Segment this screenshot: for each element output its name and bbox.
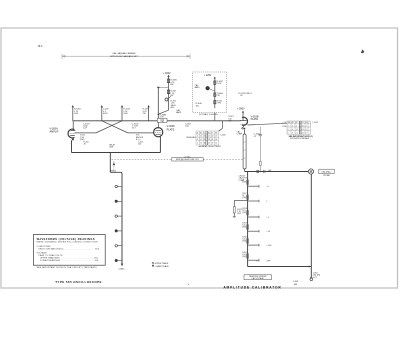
svg-text:1.0: 1.0 [302, 125, 304, 127]
svg-text:(5W): (5W) [242, 197, 246, 199]
svg-text:LOWER READINGS . . . . . . . .: LOWER READINGS . . . . . . . . . . . . .… [40, 259, 99, 262]
svg-text:(5W): (5W) [242, 181, 246, 183]
svg-text:60: 60 [212, 136, 214, 138]
svg-text:15: 15 [208, 136, 210, 138]
svg-text:AMPL: AMPL [195, 86, 200, 89]
svg-text:CAL VOLTAGE: CAL VOLTAGE [252, 277, 265, 280]
svg-text:35: 35 [215, 143, 217, 145]
svg-text:(5W): (5W) [242, 212, 246, 214]
svg-text:2.0: 2.0 [296, 132, 298, 134]
svg-text:+ 300V: + 300V [163, 72, 171, 75]
svg-text:.2: .2 [292, 125, 293, 127]
svg-text:WAVEFORMS (VOLTAGE) READINGS: WAVEFORMS (VOLTAGE) READINGS [37, 237, 95, 241]
svg-text:14: 14 [200, 143, 202, 145]
svg-text:10W: 10W [123, 113, 127, 115]
svg-text:2: 2 [288, 129, 289, 131]
svg-text:PLATE: PLATE [251, 118, 259, 121]
svg-text:10W: 10W [237, 213, 241, 215]
svg-text:100: 100 [138, 143, 141, 145]
svg-text:UPPER TRACE: UPPER TRACE [155, 262, 169, 265]
svg-text:8: 8 [306, 132, 307, 134]
svg-text:PRI: PRI [217, 95, 221, 97]
svg-text:WITH R-302 GAIN ADJ SET: WITH R-302 GAIN ADJ SET [110, 55, 138, 58]
svg-text:LINE: LINE [109, 147, 114, 149]
svg-text:65: 65 [212, 139, 214, 141]
svg-text:SEE IMPORTANT NOTE IN THE CIRC: SEE IMPORTANT NOTE IN THE CIRCUIT (THIS … [37, 266, 97, 269]
svg-text:D2: D2 [208, 132, 210, 134]
svg-text:+.001: +.001 [266, 245, 272, 247]
svg-text:18-3: 18-3 [38, 45, 43, 48]
svg-text:2: 2 [306, 125, 307, 127]
svg-text:25: 25 [204, 136, 206, 138]
svg-text:+ 225V: + 225V [204, 75, 212, 77]
svg-text:AMPL: AMPL [176, 111, 182, 114]
svg-text:.4: .4 [292, 129, 293, 131]
svg-text:1: 1 [288, 125, 289, 127]
svg-text:FOR SWITCH DETAILS: FOR SWITCH DETAILS [290, 137, 310, 140]
svg-text:4: 4 [306, 129, 307, 131]
svg-text:LEVEL ADJ: LEVEL ADJ [186, 136, 196, 139]
svg-text:1.0: 1.0 [296, 129, 298, 131]
svg-text:10: 10 [200, 136, 202, 138]
svg-text:12: 12 [200, 139, 202, 141]
svg-text:91.5K: 91.5K [217, 83, 223, 85]
svg-text:.2: .2 [197, 139, 198, 141]
svg-text:100: 100 [196, 105, 199, 107]
svg-text:WERE OBTAINED UNDER FOLLOWING: WERE OBTAINED UNDER FOLLOWING CONDITIONS… [37, 241, 99, 244]
svg-text:COM: COM [282, 126, 287, 128]
svg-text:1W: 1W [143, 113, 146, 115]
svg-text:(5W): (5W) [242, 256, 246, 258]
svg-text:CALIBRATION SETTINGS: CALIBRATION SETTINGS [198, 145, 221, 148]
svg-text:+GND→: +GND→ [118, 269, 126, 271]
svg-text:5: 5 [288, 132, 289, 134]
svg-text:D4: D4 [306, 122, 308, 124]
svg-text:AMPLITUDE CALIBRATOR: AMPLITUDE CALIBRATOR [223, 285, 281, 289]
svg-text:10W: 10W [74, 113, 78, 115]
svg-text:.8: .8 [292, 132, 293, 134]
svg-text:C3: C3 [302, 122, 304, 124]
svg-text:B1: B1 [200, 132, 202, 134]
svg-text:25: 25 [215, 136, 217, 138]
svg-text:25: 25 [204, 139, 206, 141]
svg-text:70: 70 [212, 143, 214, 145]
svg-text:CAL (IND.): CAL (IND.) [322, 170, 332, 173]
svg-text:20: 20 [208, 143, 210, 145]
svg-text:2.0: 2.0 [302, 129, 304, 131]
svg-text:(5W): (5W) [242, 227, 246, 229]
svg-text:COMP: COMP [237, 134, 243, 136]
svg-text:(5W): (5W) [242, 240, 246, 242]
svg-text:ADJ: ADJ [171, 106, 175, 109]
svg-text:F3: F3 [215, 132, 217, 134]
svg-text:AMPLIF: AMPLIF [50, 131, 60, 134]
svg-text:DC'S ADJ '0'-LEVEL: DC'S ADJ '0'-LEVEL [199, 113, 219, 116]
svg-text:2 PM: 2 PM [217, 103, 222, 105]
svg-text:30: 30 [215, 139, 217, 141]
svg-text:+ 380V: + 380V [237, 108, 245, 111]
svg-text:CAL: CAL [160, 120, 164, 123]
svg-text:600V: 600V [103, 113, 108, 115]
svg-text:.5: .5 [197, 143, 198, 145]
svg-text:PROBE: PROBE [323, 175, 330, 177]
svg-text:SWP (A) DELAY LINE OUT: SWP (A) DELAY LINE OUT [176, 158, 200, 161]
svg-text:L-003: L-003 [221, 134, 226, 136]
svg-text:PLATE: PLATE [167, 128, 175, 131]
svg-text:30: 30 [204, 143, 206, 145]
svg-text:E: E [212, 132, 213, 134]
svg-text:BW: BW [170, 84, 173, 86]
svg-text:SELECTOR MAG (SW-5) . . . . .: SELECTOR MAG (SW-5) . . . . . . . . . . … [38, 247, 99, 250]
svg-text:B2: B2 [296, 122, 298, 124]
svg-text:.1: .1 [197, 136, 198, 138]
svg-text:18: 18 [208, 139, 210, 141]
svg-text:4.0: 4.0 [302, 132, 304, 134]
svg-text:TYPE 565 OSCILLOSCOPE: TYPE 565 OSCILLOSCOPE [55, 280, 102, 284]
svg-text:1W: 1W [228, 120, 231, 122]
svg-text:465: 465 [268, 170, 271, 172]
svg-text:CAL GAIN ADJ RANGE: CAL GAIN ADJ RANGE [112, 52, 136, 55]
svg-text:L-903: L-903 [313, 122, 319, 124]
svg-text:LOWER TRACE: LOWER TRACE [155, 265, 170, 268]
svg-text:.5: .5 [296, 125, 297, 127]
